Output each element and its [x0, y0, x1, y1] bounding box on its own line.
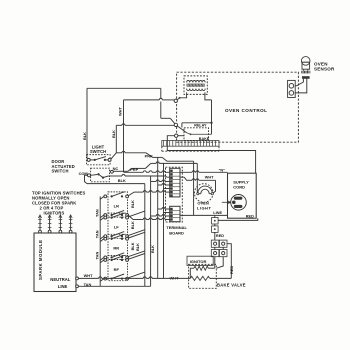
svg-text:BLK: BLK: [130, 242, 135, 250]
svg-text:LINE: LINE: [58, 284, 68, 289]
svg-text:BLK: BLK: [150, 245, 155, 253]
svg-text:IGNITOR: IGNITOR: [190, 259, 207, 264]
svg-text:CORD: CORD: [233, 184, 245, 189]
svg-text:WHT: WHT: [84, 273, 93, 278]
svg-text:SWITCH: SWITCH: [52, 169, 69, 174]
svg-text:NC: NC: [113, 166, 119, 171]
svg-text:SPARK MODULE: SPARK MODULE: [38, 239, 43, 280]
svg-text:"N": "N": [219, 168, 226, 172]
svg-text:BLK: BLK: [118, 178, 126, 183]
svg-text:SWITCH: SWITCH: [90, 149, 106, 154]
svg-text:BLK: BLK: [135, 243, 140, 251]
svg-text:BOARD: BOARD: [169, 231, 184, 236]
svg-text:RELAY: RELAY: [194, 124, 207, 128]
svg-text:TAN: TAN: [95, 209, 100, 217]
svg-text:PRP: PRP: [130, 167, 138, 172]
svg-text:BLK: BLK: [130, 221, 135, 229]
svg-text:BLK: BLK: [111, 130, 116, 138]
svg-text:NEUTRAL: NEUTRAL: [50, 277, 70, 282]
svg-text:RED: RED: [229, 266, 234, 274]
svg-text:WHT: WHT: [118, 107, 123, 116]
svg-text:RED: RED: [216, 233, 224, 238]
svg-text:RED: RED: [246, 214, 254, 218]
svg-text:LF: LF: [114, 225, 119, 230]
svg-text:PRP: PRP: [145, 153, 153, 158]
svg-text:RF: RF: [114, 267, 120, 272]
svg-text:WHT: WHT: [205, 176, 214, 180]
svg-text:BAKE VALVE: BAKE VALVE: [217, 283, 246, 288]
svg-text:RR: RR: [113, 246, 119, 251]
svg-text:SENSOR: SENSOR: [314, 67, 335, 72]
svg-text:BLK: BLK: [130, 200, 135, 208]
svg-text:LIGHT: LIGHT: [197, 205, 212, 210]
svg-text:TERMINAL: TERMINAL: [166, 225, 187, 230]
svg-text:OVEN CONTROL: OVEN CONTROL: [225, 108, 267, 113]
svg-text:LR: LR: [114, 203, 119, 208]
svg-text:TAN: TAN: [95, 230, 100, 238]
svg-text:TAN: TAN: [95, 252, 100, 260]
svg-text:LINE: LINE: [213, 210, 222, 215]
svg-text:IGNITORS: IGNITORS: [44, 210, 65, 215]
svg-text:BLK: BLK: [82, 132, 87, 140]
